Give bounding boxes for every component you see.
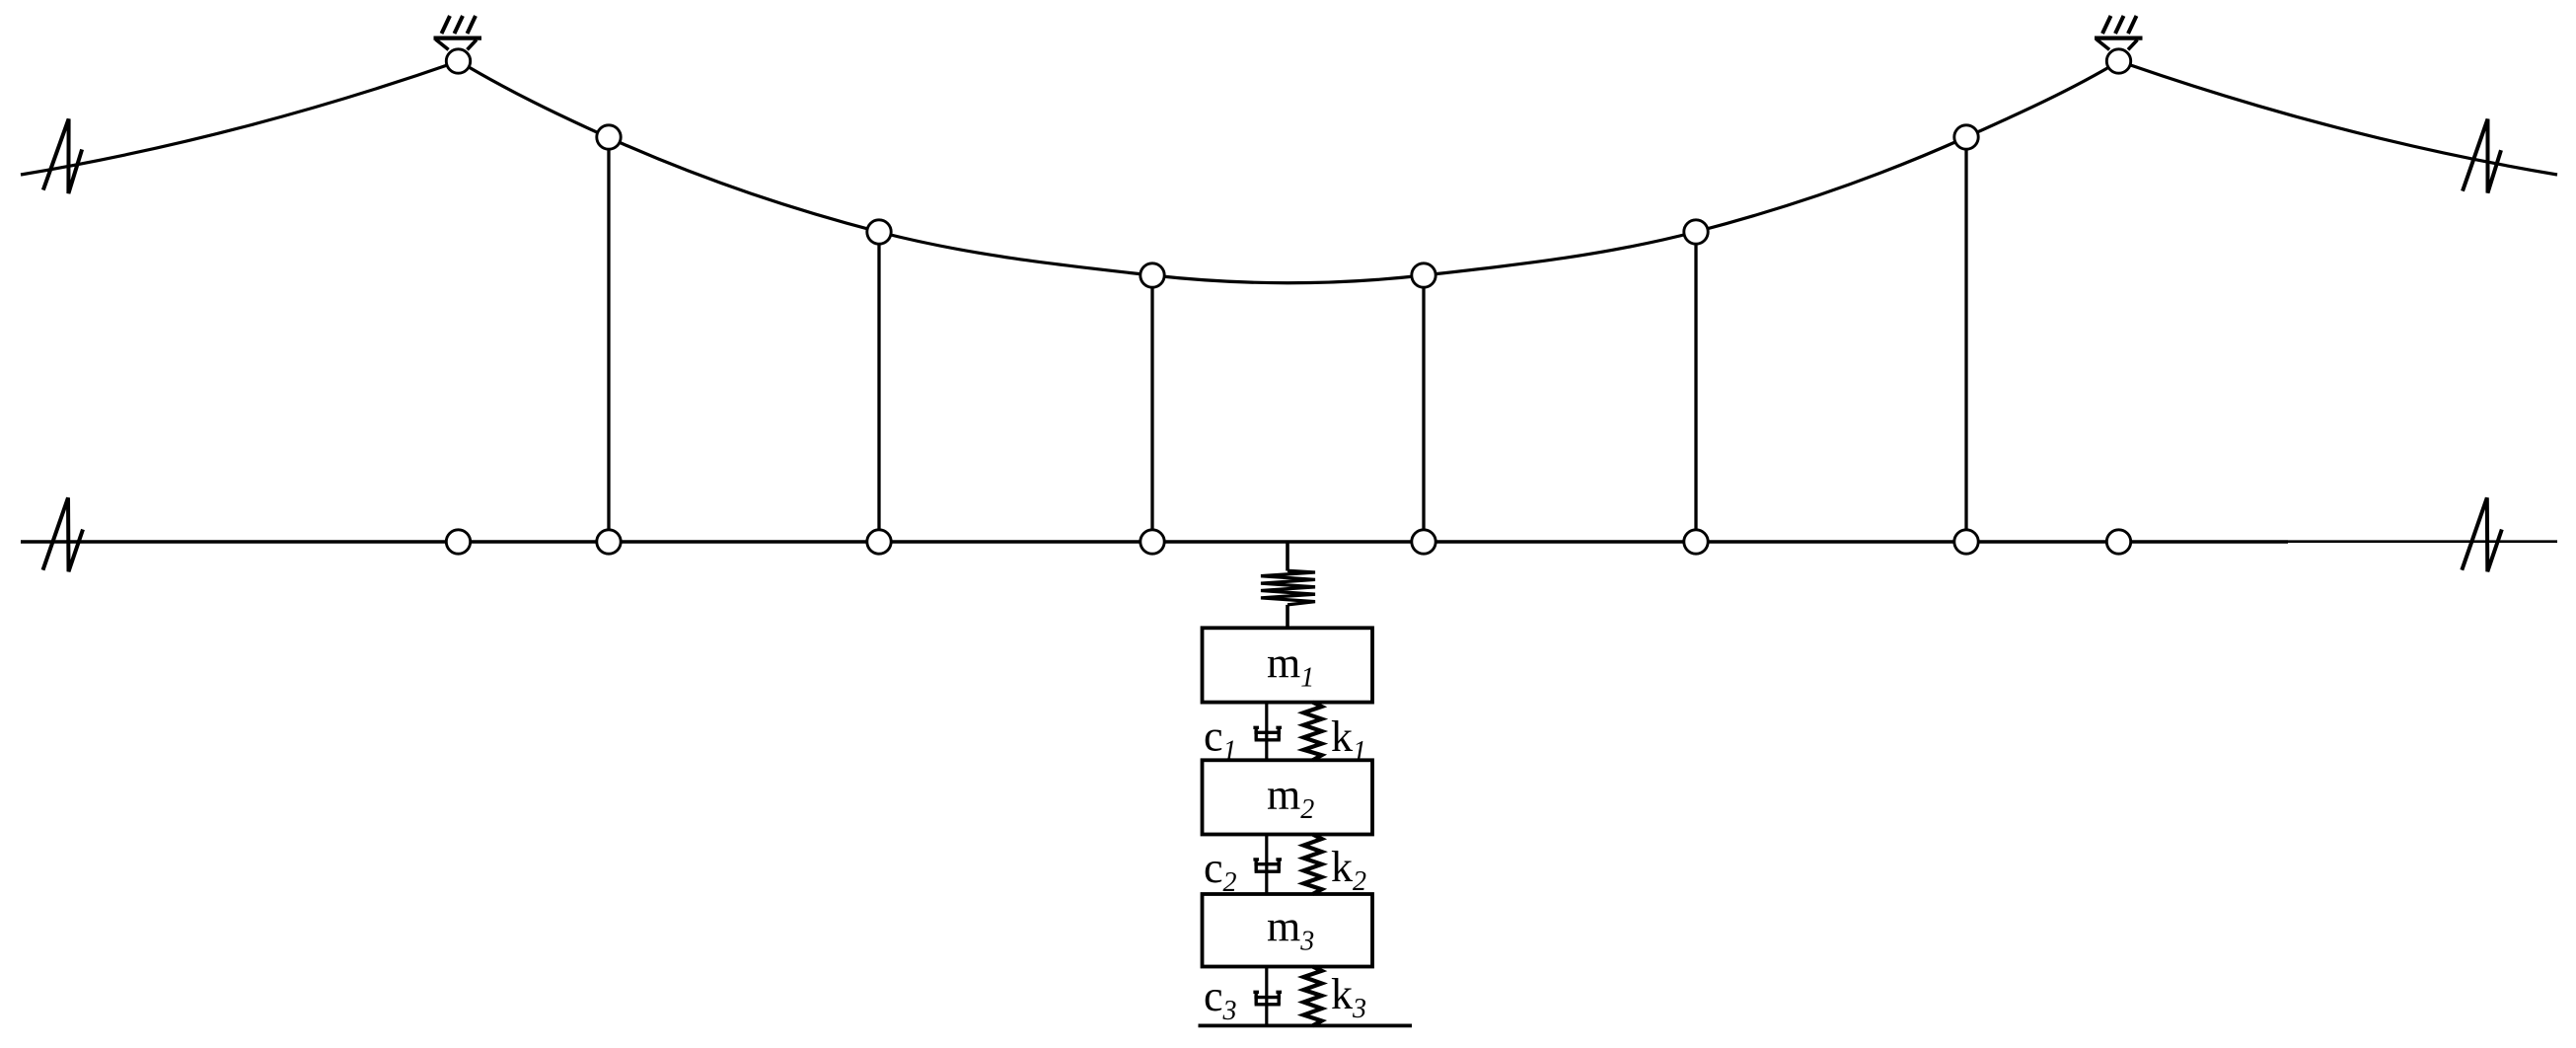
spring: pantograph head coil spring — [1261, 570, 1315, 605]
wire: pantograph rod upper — [1286, 542, 1289, 571]
wire: contact wire — [21, 540, 2288, 544]
svg-text:k3: k3 — [1331, 970, 1366, 1024]
svg-text:k1: k1 — [1331, 712, 1366, 767]
node: contact node below right support — [2106, 530, 2130, 554]
dropper 3 — [1150, 275, 1153, 542]
spring K1 — [1303, 703, 1321, 761]
svg-text:c2: c2 — [1204, 844, 1237, 898]
node: contact node 4 — [1412, 530, 1435, 554]
support right: V links — [2097, 39, 2137, 50]
svg-text:c1: c1 — [1204, 712, 1237, 767]
node: messenger node 5 — [1684, 220, 1708, 244]
node: contact node 5 — [1684, 530, 1708, 554]
node: messenger node 2 — [867, 220, 891, 244]
break symbol: messenger left — [43, 119, 82, 194]
break symbol: contact left — [43, 497, 84, 571]
svg-text:c3: c3 — [1204, 972, 1237, 1026]
mass m2 box — [1203, 760, 1373, 834]
damper C2 cup and piston — [1253, 860, 1282, 871]
break symbol: contact right — [2462, 497, 2502, 571]
wire: pantograph rod lower — [1286, 605, 1289, 629]
support left: V links — [436, 39, 477, 50]
dropper 6 — [1964, 137, 1967, 542]
dropper 5 — [1694, 232, 1697, 542]
support right: hatches — [2102, 16, 2137, 34]
node: contact node 1 — [597, 530, 621, 554]
svg-text:k2: k2 — [1331, 843, 1366, 897]
node: messenger node 3 — [1141, 263, 1164, 287]
damper C2 rod — [1265, 835, 1268, 895]
damper C1 rod — [1265, 703, 1268, 761]
ground line — [1199, 1024, 1413, 1028]
dropper 4 — [1422, 275, 1425, 542]
node: support left pin circle — [446, 49, 470, 73]
dropper 2 — [877, 232, 880, 542]
support right: bar — [2095, 36, 2143, 39]
node: support right pin circle — [2106, 49, 2130, 73]
wire: messenger left outer span — [21, 61, 459, 175]
node: contact node 3 — [1141, 530, 1164, 554]
dropper 1 — [607, 137, 610, 542]
node: messenger node 6 — [1954, 125, 1978, 149]
wire: messenger right outer span — [2119, 61, 2557, 175]
damper C3 rod — [1265, 967, 1268, 1026]
node: contact node 2 — [867, 530, 891, 554]
node: messenger node 1 — [597, 125, 621, 149]
wire: messenger main span catenary — [459, 61, 2119, 283]
spring K2 — [1303, 835, 1321, 895]
wire: contact wire right thin segment — [2288, 540, 2557, 543]
mass m3 box — [1203, 894, 1373, 967]
node: messenger node 4 — [1412, 263, 1435, 287]
mass m1 box — [1203, 628, 1373, 702]
node: contact node below left support — [446, 530, 470, 554]
support left: bar — [434, 36, 482, 39]
node: contact node 6 — [1954, 530, 1978, 554]
damper C1 cup and piston — [1253, 727, 1282, 740]
break symbol: messenger right — [2463, 119, 2501, 193]
support left: hatches — [442, 16, 477, 34]
spring K3 — [1303, 967, 1321, 1026]
damper C3 cup and piston — [1253, 992, 1282, 1005]
